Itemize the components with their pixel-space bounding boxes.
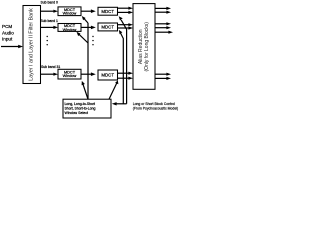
alias reduction box bbox=[133, 4, 155, 90]
wire sub band 1 bbox=[41, 26, 59, 29]
wire alias output row3 a bbox=[155, 73, 171, 76]
wire window2 to mdct2 bbox=[81, 26, 96, 30]
wire mdct2 to alias line a bbox=[118, 23, 134, 26]
vertical ellipsis between rows left bbox=[47, 36, 48, 46]
wire alias output row1 b bbox=[155, 11, 171, 14]
vertical ellipsis between rows middle bbox=[92, 36, 93, 46]
MDCT box row 1 bbox=[98, 7, 118, 15]
svg-text:Sub band 0: Sub band 0 bbox=[41, 0, 58, 4]
wire window3 to mdct3 bbox=[81, 72, 96, 76]
wire branch to mdct3 bbox=[109, 80, 118, 99]
wire window1 to mdct1 bbox=[81, 9, 96, 13]
svg-text:Long, Long-to-Short: Long, Long-to-Short bbox=[65, 102, 95, 106]
svg-text:PCM: PCM bbox=[2, 24, 12, 29]
svg-text:Sub band 31: Sub band 31 bbox=[41, 65, 60, 69]
wire mdct1 to alias line b bbox=[118, 11, 134, 14]
svg-text:Sub band 1: Sub band 1 bbox=[41, 19, 58, 23]
wire mdct3 to alias line a bbox=[118, 72, 134, 75]
svg-text:Window Select: Window Select bbox=[65, 111, 88, 115]
MDCT Window box row 3 bbox=[58, 69, 81, 79]
wire alias output row2 b bbox=[155, 26, 171, 29]
wire sub band 0 bbox=[41, 10, 59, 13]
wire branch to window1 bbox=[82, 16, 88, 23]
svg-text:MDCT: MDCT bbox=[101, 73, 114, 78]
svg-text:MDCT: MDCT bbox=[101, 25, 114, 30]
wire control trunk to mdct2 bbox=[119, 30, 124, 104]
MDCT box row 2 bbox=[98, 23, 118, 31]
svg-text:Window: Window bbox=[63, 12, 77, 16]
filter bank box bbox=[23, 6, 41, 84]
svg-text:Audio: Audio bbox=[2, 30, 14, 35]
wire block control into window select bbox=[112, 102, 127, 105]
wire alias output row2 c bbox=[155, 31, 173, 34]
window select box bbox=[63, 99, 111, 118]
svg-text:MDCT: MDCT bbox=[101, 9, 114, 14]
wire PCM input arrow bbox=[1, 45, 23, 48]
wire mdct1 to alias line a bbox=[118, 7, 134, 10]
wire branch to window3 bbox=[82, 81, 88, 99]
svg-text:(From Psychoacoustic Model): (From Psychoacoustic Model) bbox=[133, 107, 178, 111]
wire alias output row1 a bbox=[155, 7, 171, 10]
wire branch to window2 bbox=[77, 32, 89, 43]
wire alias output row2 a bbox=[155, 22, 171, 25]
svg-text:Layer I and Layer II Filter Ba: Layer I and Layer II Filter Bank bbox=[28, 8, 34, 81]
MDCT Window box row 1 bbox=[58, 7, 81, 16]
label long or short block control bbox=[133, 102, 178, 110]
MDCT box row 3 bbox=[98, 70, 118, 80]
wire alias output row3 b bbox=[155, 77, 171, 80]
wire window select trunk bbox=[87, 23, 89, 99]
wire sub band 31 bbox=[41, 73, 59, 76]
svg-text:Window: Window bbox=[63, 74, 77, 78]
label PCM Audio Input bbox=[2, 24, 14, 42]
MDCT Window box row 2 bbox=[58, 24, 81, 32]
wire mdct2 to alias line b bbox=[118, 26, 134, 29]
svg-text:(Only for Long Blocks): (Only for Long Blocks) bbox=[144, 22, 150, 72]
svg-text:Short, Short-to-Long: Short, Short-to-Long bbox=[65, 107, 96, 111]
svg-text:Window: Window bbox=[63, 28, 77, 32]
svg-text:Input: Input bbox=[2, 37, 13, 42]
wire control trunk to mdct1 bbox=[119, 16, 127, 104]
wire mdct3 to alias line b bbox=[118, 77, 134, 80]
